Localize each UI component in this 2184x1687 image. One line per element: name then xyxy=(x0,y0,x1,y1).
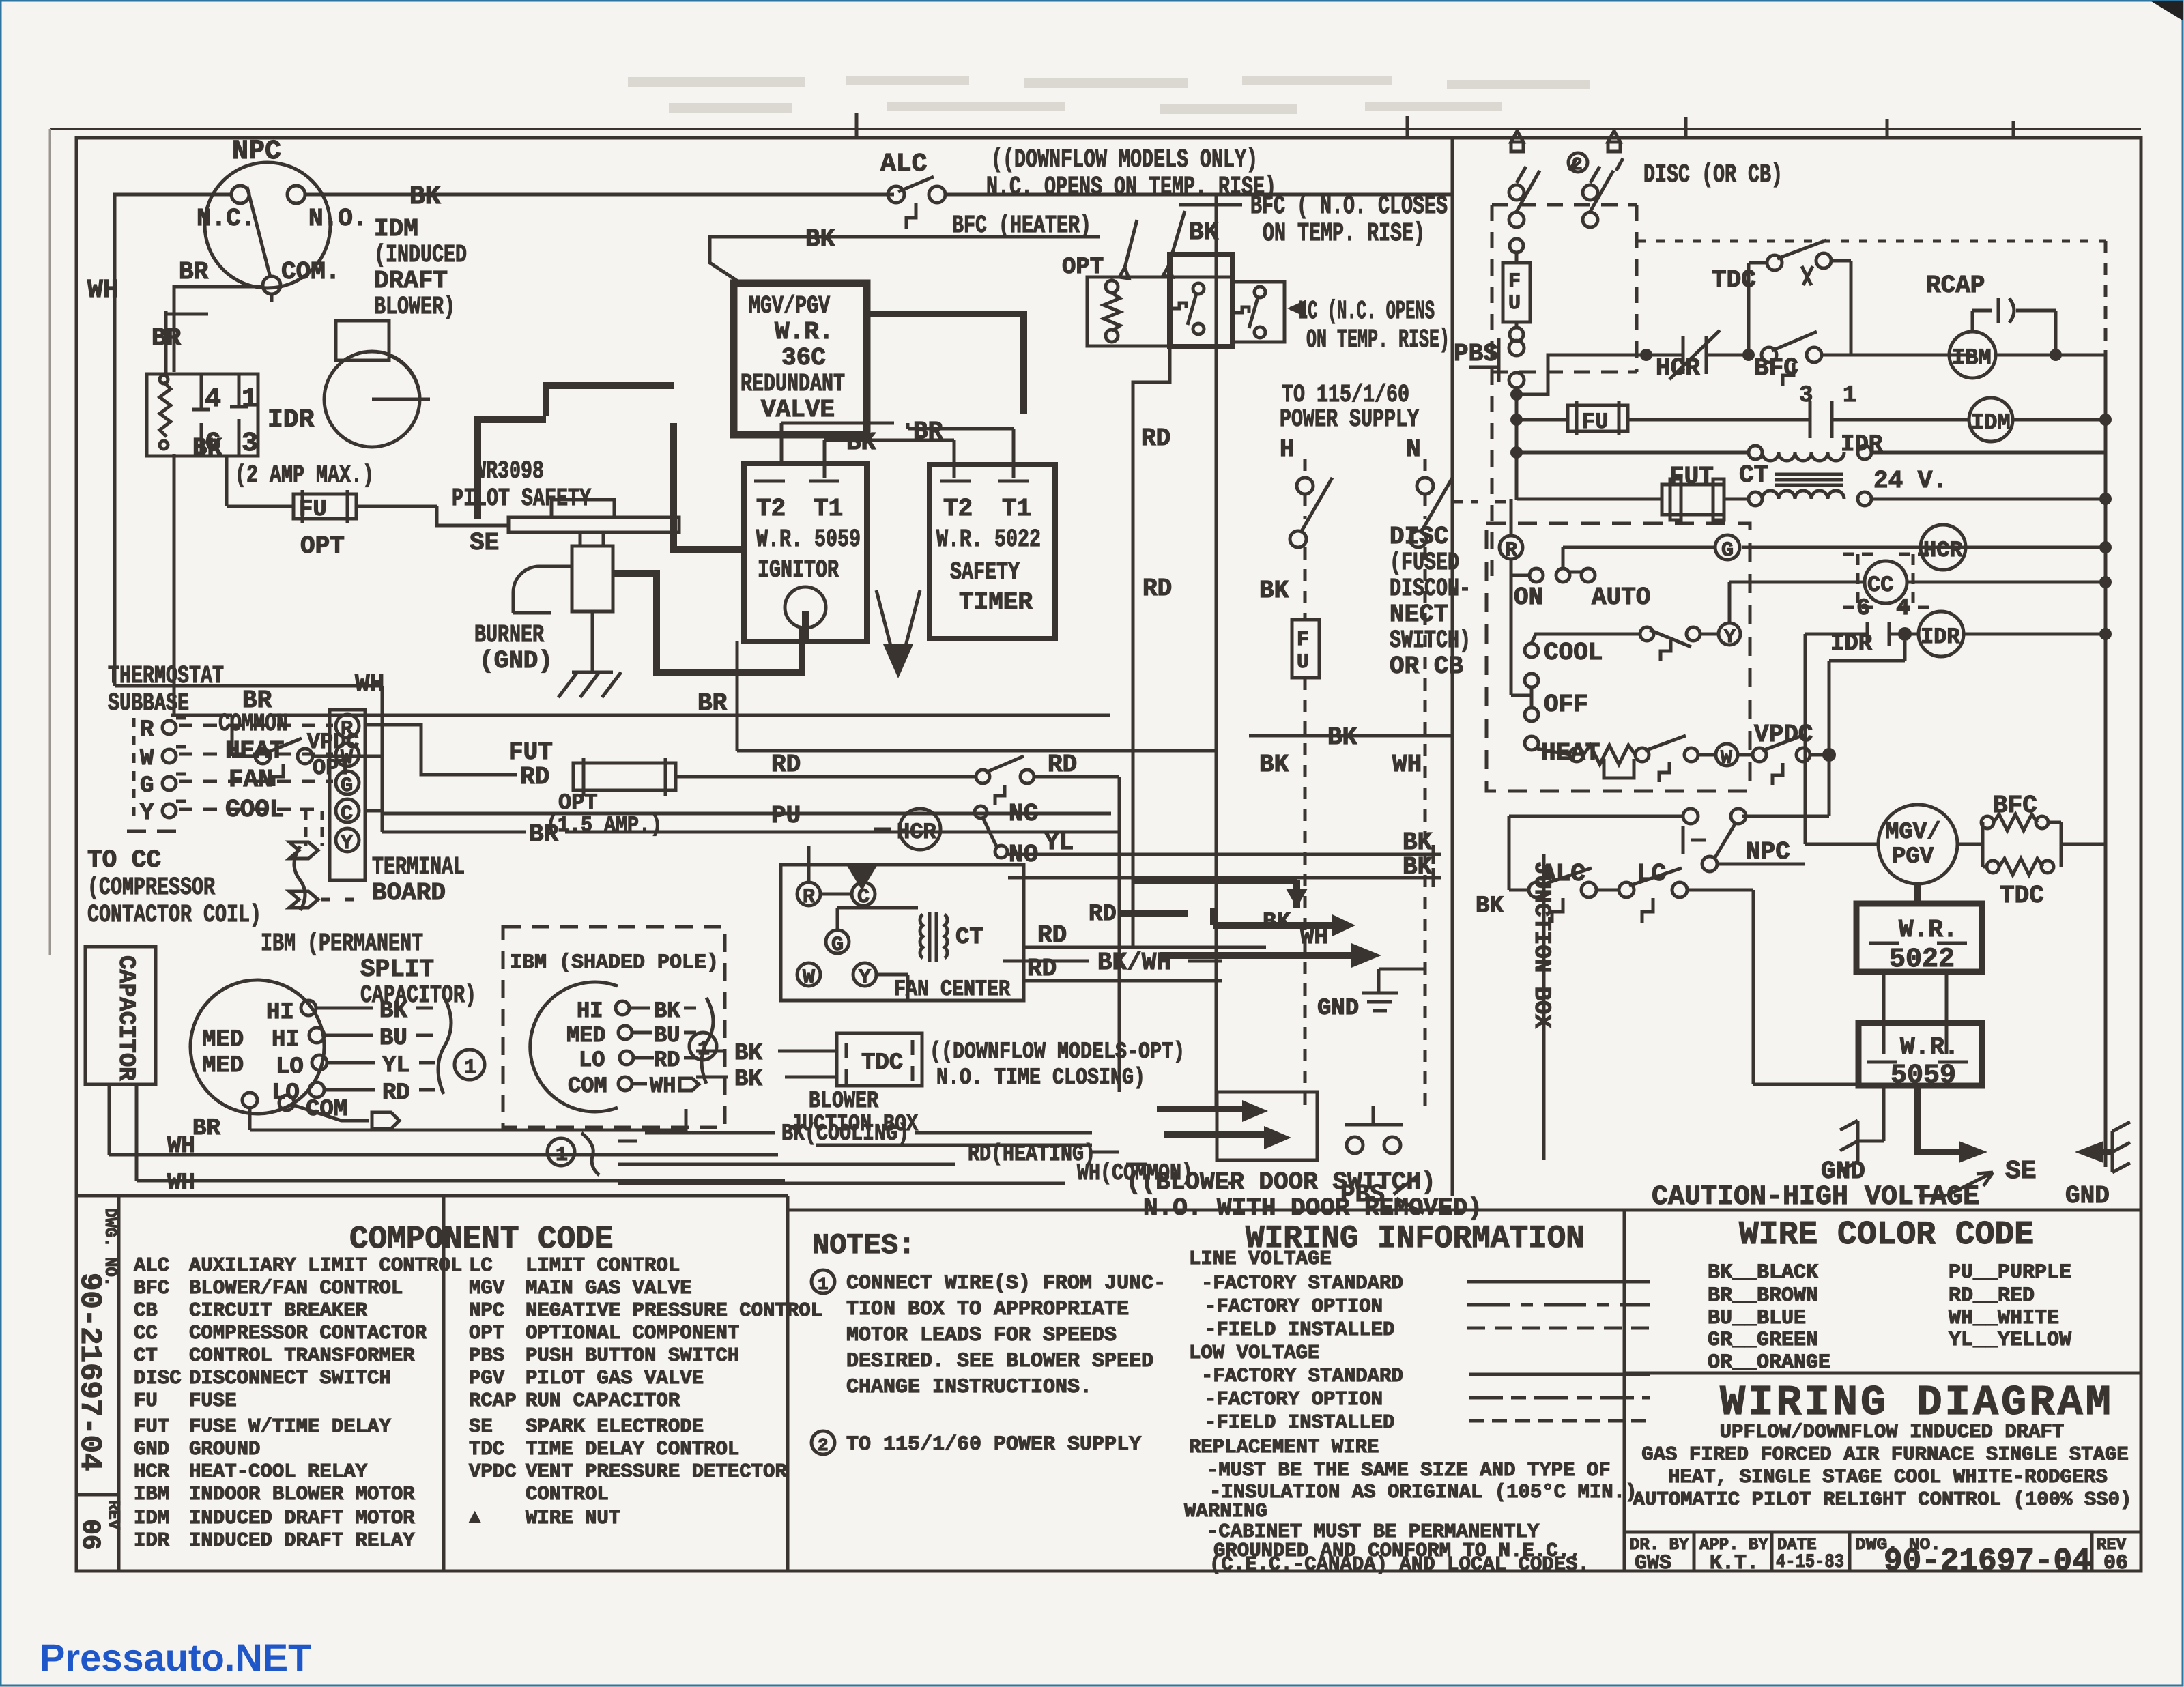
svg-text:BK: BK xyxy=(734,1041,762,1067)
svg-text:GROUND: GROUND xyxy=(189,1438,260,1460)
svg-text:LOW VOLTAGE: LOW VOLTAGE xyxy=(1189,1342,1319,1364)
transformer CT 24V xyxy=(1517,446,2112,506)
svg-text:W: W xyxy=(803,966,815,990)
svg-text:BR: BR xyxy=(913,418,943,446)
svg-text:INDUCED DRAFT RELAY: INDUCED DRAFT RELAY xyxy=(189,1529,415,1552)
svg-text:U: U xyxy=(1297,651,1309,674)
contact HCR N.C. xyxy=(1646,330,1749,379)
switch VPDC right xyxy=(1738,721,1836,785)
svg-text:RD: RD xyxy=(1141,424,1170,452)
svg-text:TO CC: TO CC xyxy=(87,846,161,874)
svg-text:BK: BK xyxy=(192,434,222,462)
svg-text:RD: RD xyxy=(1048,751,1077,779)
svg-text:RD: RD xyxy=(1037,921,1067,949)
svg-text:VALVE: VALVE xyxy=(761,396,835,424)
svg-text:F: F xyxy=(1508,270,1521,293)
svg-text:BR: BR xyxy=(179,258,209,286)
motor IDM blower symbol xyxy=(324,321,430,447)
svg-text:BK: BK xyxy=(734,1067,762,1093)
svg-text:RD: RD xyxy=(382,1080,410,1106)
svg-text:N.O. TIME CLOSING): N.O. TIME CLOSING) xyxy=(936,1065,1145,1091)
svg-text:K.T.: K.T. xyxy=(1710,1552,1759,1575)
svg-text:G: G xyxy=(1721,539,1734,562)
svg-text:(GND): (GND) xyxy=(479,647,553,675)
svg-text:YL: YL xyxy=(1044,828,1074,856)
heavy wire into valve left xyxy=(474,382,674,519)
svg-text:06: 06 xyxy=(75,1519,104,1551)
svg-text:OPT: OPT xyxy=(469,1322,504,1344)
svg-text:ALC: ALC xyxy=(134,1254,169,1277)
svg-text:Y: Y xyxy=(859,966,871,990)
scan corner artifact top-right xyxy=(2151,1,2183,20)
svg-text:CC: CC xyxy=(1867,573,1893,598)
motor IBM shaded pole dashed box xyxy=(503,927,725,1127)
svg-text:Y: Y xyxy=(140,801,154,826)
svg-text:NEGATIVE PRESSURE CONTROL: NEGATIVE PRESSURE CONTROL xyxy=(526,1299,822,1322)
svg-text:CONTROL TRANSFORMER: CONTROL TRANSFORMER xyxy=(189,1344,415,1367)
relay IDR xyxy=(147,374,315,459)
svg-text:JUCTION BOX: JUCTION BOX xyxy=(790,1112,918,1138)
svg-text:T1: T1 xyxy=(1002,495,1031,523)
svg-text:WH: WH xyxy=(167,1134,195,1159)
line samples xyxy=(1467,1280,1650,1284)
svg-text:-FACTORY STANDARD: -FACTORY STANDARD xyxy=(1201,1365,1403,1387)
svg-text:CHANGE INSTRUCTIONS.: CHANGE INSTRUCTIONS. xyxy=(846,1376,1092,1399)
svg-text:CONTACTOR COIL): CONTACTOR COIL) xyxy=(87,901,261,929)
svg-text:BK: BK xyxy=(1259,751,1289,779)
svg-text:SPARK ELECTRODE: SPARK ELECTRODE xyxy=(526,1415,704,1438)
svg-text:N.O.: N.O. xyxy=(308,205,367,233)
svg-text:IGNITOR: IGNITOR xyxy=(758,556,839,584)
fuse FU in disconnect xyxy=(1510,239,1523,253)
svg-text:BFC ( N.O. CLOSES: BFC ( N.O. CLOSES xyxy=(1250,192,1448,221)
svg-text:NC: NC xyxy=(1009,800,1038,828)
svg-text:DISC: DISC xyxy=(134,1367,182,1389)
svg-text:RCAP: RCAP xyxy=(469,1389,517,1412)
wires BK cooling / RD heating / WH common xyxy=(547,1121,1235,1187)
svg-text:TDC: TDC xyxy=(1712,266,1756,294)
svg-text:COM.: COM. xyxy=(281,258,340,286)
svg-text:MGV/PGV: MGV/PGV xyxy=(749,292,830,320)
svg-text:NOTES:: NOTES: xyxy=(812,1229,915,1262)
svg-text:G: G xyxy=(831,934,844,957)
svg-text:REV: REV xyxy=(104,1500,122,1530)
svg-text:WIRING DIAGRAM: WIRING DIAGRAM xyxy=(1720,1379,2114,1427)
svg-text:W: W xyxy=(1721,748,1732,769)
svg-text:WIRE NUT: WIRE NUT xyxy=(526,1507,620,1529)
svg-text:TERMINAL: TERMINAL xyxy=(372,853,465,881)
svg-text:N.C. OPENS ON TEMP. RISE): N.C. OPENS ON TEMP. RISE) xyxy=(986,173,1276,202)
svg-text:HCR: HCR xyxy=(134,1460,170,1483)
svg-text:R: R xyxy=(1505,539,1517,562)
svg-text:IDM: IDM xyxy=(1971,410,2011,435)
svg-text:YL: YL xyxy=(382,1053,410,1079)
switches ALC LC bottom right xyxy=(1509,816,1858,1084)
svg-text:FUT: FUT xyxy=(1669,463,1714,491)
svg-text:IDR: IDR xyxy=(134,1529,170,1552)
svg-text:5022: 5022 xyxy=(1889,945,1955,975)
svg-text:BK: BK xyxy=(1403,853,1433,881)
svg-text:DRAFT: DRAFT xyxy=(374,267,448,295)
drawing outer frame top line xyxy=(50,128,2141,130)
svg-text:INDOOR BLOWER MOTOR: INDOOR BLOWER MOTOR xyxy=(189,1483,415,1505)
svg-text:BK: BK xyxy=(654,998,680,1024)
svg-text:RD: RD xyxy=(1089,902,1117,927)
svg-text:R: R xyxy=(341,718,353,741)
svg-text:Y: Y xyxy=(341,832,353,855)
svg-text:NECT: NECT xyxy=(1390,601,1448,629)
valve MGV/PGV right xyxy=(1805,634,1957,884)
disconnect dashed box xyxy=(1492,131,1637,587)
svg-text:G: G xyxy=(341,775,353,798)
svg-text:4-15-83: 4-15-83 xyxy=(1776,1552,1844,1573)
svg-text:C: C xyxy=(341,803,353,826)
svg-text:BK: BK xyxy=(846,429,876,457)
svg-text:COM: COM xyxy=(568,1073,607,1099)
svg-text:GR__GREEN: GR__GREEN xyxy=(1708,1329,1818,1352)
svg-text:TDC: TDC xyxy=(469,1438,504,1460)
svg-text:WH: WH xyxy=(1392,751,1422,779)
svg-text:90-21697-04: 90-21697-04 xyxy=(72,1273,106,1471)
svg-text:MED: MED xyxy=(202,1027,244,1053)
svg-text:T1: T1 xyxy=(814,495,843,523)
svg-text:GWS: GWS xyxy=(1635,1552,1671,1575)
svg-text:MED: MED xyxy=(566,1023,606,1048)
svg-text:-FIELD INSTALLED: -FIELD INSTALLED xyxy=(1205,1411,1394,1434)
svg-text:REPLACEMENT WIRE: REPLACEMENT WIRE xyxy=(1189,1436,1379,1458)
svg-text:PU__PURPLE: PU__PURPLE xyxy=(1949,1261,2071,1284)
heat branch resistor xyxy=(1537,749,1570,755)
grounds + SE caution xyxy=(1652,1086,2130,1213)
svg-text:HCR: HCR xyxy=(1923,538,1963,563)
svg-text:GND: GND xyxy=(1821,1157,1865,1185)
dashed line N xyxy=(1424,459,1427,519)
svg-text:NPC: NPC xyxy=(469,1299,504,1322)
arrow into C xyxy=(846,865,878,891)
svg-text:OPT: OPT xyxy=(1062,255,1104,280)
svg-text:BU__BLUE: BU__BLUE xyxy=(1708,1307,1806,1330)
svg-text:AUTOMATIC PILOT RELIGHT CONTRO: AUTOMATIC PILOT RELIGHT CONTROL (100% SS… xyxy=(1633,1488,2132,1511)
wire WH from NPC N.C. to left vertical xyxy=(87,194,231,686)
arrow big V into fan center xyxy=(876,590,920,678)
svg-text:WH: WH xyxy=(650,1073,676,1099)
svg-text:1: 1 xyxy=(242,384,258,415)
svg-text:RUN CAPACITOR: RUN CAPACITOR xyxy=(526,1389,680,1412)
svg-text:3: 3 xyxy=(1799,383,1813,409)
svg-text:TO 115/1/60 POWER SUPPLY: TO 115/1/60 POWER SUPPLY xyxy=(846,1433,1141,1456)
svg-text:BFC (HEATER): BFC (HEATER) xyxy=(952,212,1091,240)
wire BR above timer xyxy=(908,418,1014,478)
svg-text:NPC: NPC xyxy=(232,136,281,167)
svg-text:ON TEMP. RISE): ON TEMP. RISE) xyxy=(1306,326,1450,355)
svg-text:H: H xyxy=(1280,435,1295,463)
svg-text:BFC: BFC xyxy=(134,1277,169,1299)
svg-text:HEAT-COOL RELAY: HEAT-COOL RELAY xyxy=(189,1460,368,1483)
svg-text:ON TEMP. RISE): ON TEMP. RISE) xyxy=(1263,219,1425,248)
bottom title row xyxy=(1624,1532,2141,1571)
center divider vertical between main schematic and right ladder xyxy=(1451,138,1454,1196)
svg-text:PBS: PBS xyxy=(1454,340,1498,368)
svg-text:((DOWNFLOW MODELS-OPT): ((DOWNFLOW MODELS-OPT) xyxy=(930,1039,1185,1065)
svg-text:C: C xyxy=(857,886,870,909)
svg-text:(C.E.C.-CANADA) AND LOCAL CODE: (C.E.C.-CANADA) AND LOCAL CODES. xyxy=(1209,1553,1590,1576)
svg-text:N.O. WITH DOOR REMOVED): N.O. WITH DOOR REMOVED) xyxy=(1143,1194,1482,1222)
registration ticks on top border xyxy=(857,113,2013,138)
system switch COOL OFF HEAT xyxy=(1511,559,1532,695)
switch LC-1 xyxy=(1193,283,1204,294)
resistor OPT inside xyxy=(1106,280,1118,293)
svg-text:HCR: HCR xyxy=(897,820,936,845)
wire BK valve top to BFC xyxy=(710,225,1100,285)
svg-text:BFC: BFC xyxy=(1754,354,1798,382)
svg-text:RCAP: RCAP xyxy=(1926,272,1985,300)
svg-text:Y: Y xyxy=(1724,627,1736,648)
svg-text:WH: WH xyxy=(167,1170,195,1196)
right inner vertical rail xyxy=(2104,241,2108,355)
svg-text:BU: BU xyxy=(654,1023,680,1048)
svg-text:PU: PU xyxy=(771,802,801,830)
svg-text:TDC: TDC xyxy=(861,1050,903,1076)
heavy wire valve right to 5022 xyxy=(867,314,1024,414)
terminal board xyxy=(330,710,465,907)
thermostat dashed box right xyxy=(1486,499,1750,791)
wires BR WH WH lower xyxy=(109,1084,785,1196)
cool branch to Y xyxy=(1532,634,1641,644)
ignitor W.R. 5059 xyxy=(744,463,867,641)
switch NPC right xyxy=(1509,809,1805,871)
svg-text:LO: LO xyxy=(276,1054,304,1080)
resistor TDC right xyxy=(1983,844,2106,1167)
motor IBM xyxy=(1949,332,1996,378)
svg-text:FUSE: FUSE xyxy=(189,1389,237,1412)
contact IDR 6-4 and relay IDR coil xyxy=(1742,541,2112,816)
svg-text:HEAT, SINGLE STAGE COOL WHITE-: HEAT, SINGLE STAGE COOL WHITE-RODGERS xyxy=(1668,1466,2108,1488)
timer box W.R. 5022 right xyxy=(1856,884,1982,975)
svg-text:G: G xyxy=(140,773,154,799)
svg-text:DESIRED. SEE BLOWER SPEED: DESIRED. SEE BLOWER SPEED xyxy=(846,1350,1153,1373)
svg-text:WH: WH xyxy=(1300,925,1328,951)
svg-text:-FACTORY OPTION: -FACTORY OPTION xyxy=(1205,1295,1383,1318)
switch LC-2 xyxy=(1254,287,1265,298)
svg-text:PGV: PGV xyxy=(1892,844,1934,870)
svg-text:OFF: OFF xyxy=(1544,691,1588,719)
relay HCR xyxy=(874,800,1441,887)
svg-text:POWER SUPPLY: POWER SUPPLY xyxy=(1280,405,1419,433)
svg-text:UPFLOW/DOWNFLOW INDUCED DRAFT: UPFLOW/DOWNFLOW INDUCED DRAFT xyxy=(1720,1421,2065,1443)
svg-text:OPTIONAL COMPONENT: OPTIONAL COMPONENT xyxy=(526,1322,739,1344)
svg-text:CT: CT xyxy=(1739,461,1768,489)
svg-text:FU: FU xyxy=(134,1389,158,1412)
heavy wire pilot to ignitor loop xyxy=(613,423,802,672)
svg-text:W.R.: W.R. xyxy=(1899,916,1957,944)
svg-text:W.R.: W.R. xyxy=(775,318,833,346)
svg-text:LC: LC xyxy=(469,1254,493,1277)
svg-text:BR: BR xyxy=(192,1116,220,1142)
svg-text:COOL: COOL xyxy=(1544,639,1603,667)
svg-text:HEAT: HEAT xyxy=(225,737,284,765)
svg-text:RD: RD xyxy=(1143,575,1172,603)
svg-text:BLOWER/FAN CONTROL: BLOWER/FAN CONTROL xyxy=(189,1277,403,1299)
svg-text:SAFETY: SAFETY xyxy=(950,558,1020,586)
svg-text:(FUSED: (FUSED xyxy=(1390,549,1459,577)
svg-text:PBS: PBS xyxy=(469,1344,504,1367)
svg-text:24 V.: 24 V. xyxy=(1873,467,1947,495)
svg-text:W.R. 5059: W.R. 5059 xyxy=(756,525,861,553)
svg-text:OR__ORANGE: OR__ORANGE xyxy=(1708,1351,1830,1374)
blower door switch box with arrows xyxy=(1126,1092,1482,1222)
svg-text:-FIELD INSTALLED: -FIELD INSTALLED xyxy=(1205,1318,1394,1341)
wires fan center to right rows xyxy=(876,921,1266,1000)
svg-text:OPT: OPT xyxy=(300,532,345,560)
svg-text:5059: 5059 xyxy=(1891,1061,1956,1091)
NPC switch NPC xyxy=(197,136,367,294)
svg-text:PUSH BUTTON SWITCH: PUSH BUTTON SWITCH xyxy=(526,1344,739,1367)
dwg number strip xyxy=(72,1196,122,1571)
svg-text:BK: BK xyxy=(1259,577,1289,605)
svg-text:GND: GND xyxy=(134,1438,169,1460)
svg-text:OPT: OPT xyxy=(558,790,598,816)
svg-text:WIRE COLOR CODE: WIRE COLOR CODE xyxy=(1739,1217,2034,1254)
switch ALC on BK bus xyxy=(880,145,1276,229)
wire BR vertical into IDR xyxy=(152,311,208,374)
valve MGV/PGV W.R. 36C redundant xyxy=(734,283,867,435)
svg-text:THERMOSTAT: THERMOSTAT xyxy=(108,662,224,690)
wire from LC box bottom down-left xyxy=(1133,347,1170,947)
motor IBM permanent split capacitor xyxy=(190,929,485,1129)
svg-text:HI: HI xyxy=(577,998,603,1024)
svg-text:BK: BK xyxy=(379,998,407,1024)
svg-text:MGV/: MGV/ xyxy=(1885,820,1941,846)
safety timer W.R. 5022 xyxy=(930,465,1055,639)
ground GND at junction box xyxy=(1317,969,1425,1022)
svg-text:2: 2 xyxy=(1572,154,1583,175)
svg-text:AUXILIARY LIMIT CONTROL: AUXILIARY LIMIT CONTROL xyxy=(189,1254,462,1277)
svg-text:BLOWER: BLOWER xyxy=(809,1088,878,1114)
svg-text:LC (N.C. OPENS: LC (N.C. OPENS xyxy=(1298,297,1435,326)
svg-text:DISC (OR CB): DISC (OR CB) xyxy=(1643,160,1783,190)
svg-text:W: W xyxy=(140,746,154,772)
svg-text:LO: LO xyxy=(272,1080,300,1106)
fuse FUT w/time delay xyxy=(1517,463,1749,520)
svg-text:GAS FIRED FORCED AIR FURNACE S: GAS FIRED FORCED AIR FURNACE SINGLE STAG… xyxy=(1641,1443,2129,1466)
right panel top border xyxy=(1624,1209,2141,1212)
svg-text:-MUST BE THE SAME SIZE AND TYP: -MUST BE THE SAME SIZE AND TYPE OF xyxy=(1207,1459,1611,1482)
svg-text:CAPACITOR: CAPACITOR xyxy=(113,955,139,1081)
svg-text:BK__BLACK: BK__BLACK xyxy=(1708,1261,1818,1284)
svg-text:BLOWER): BLOWER) xyxy=(374,293,455,321)
svg-text:RD: RD xyxy=(1027,955,1057,983)
svg-text:RD__RED: RD__RED xyxy=(1949,1284,2035,1308)
svg-text:FUT: FUT xyxy=(508,738,553,766)
notes panel xyxy=(811,1229,1166,1456)
wire BR row mid xyxy=(737,641,1452,751)
svg-text:SPLIT: SPLIT xyxy=(360,955,434,983)
switch BFC xyxy=(1762,347,1777,362)
terminal R xyxy=(1499,536,1523,559)
svg-text:SWITCH): SWITCH) xyxy=(1390,626,1471,654)
svg-text:COMPONENT CODE: COMPONENT CODE xyxy=(349,1222,613,1257)
svg-text:W: W xyxy=(341,747,353,770)
svg-text:(INDUCED: (INDUCED xyxy=(374,241,467,269)
svg-text:LIMIT CONTROL: LIMIT CONTROL xyxy=(526,1254,680,1277)
svg-text:BK: BK xyxy=(1189,218,1219,246)
svg-text:IBM (PERMANENT: IBM (PERMANENT xyxy=(261,929,423,957)
svg-text:COMPRESSOR CONTACTOR: COMPRESSOR CONTACTOR xyxy=(189,1322,427,1344)
svg-text:((DOWNFLOW MODELS ONLY): ((DOWNFLOW MODELS ONLY) xyxy=(991,145,1258,175)
svg-text:1: 1 xyxy=(818,1274,829,1295)
svg-text:PILOT GAS VALVE: PILOT GAS VALVE xyxy=(526,1367,704,1389)
svg-text:IBM (SHADED POLE): IBM (SHADED POLE) xyxy=(510,951,719,975)
fan switch ON / AUTO xyxy=(1511,559,1529,575)
svg-text:1: 1 xyxy=(464,1056,476,1080)
wire BK from IDR area to blower xyxy=(192,434,227,506)
svg-text:TDC: TDC xyxy=(2000,882,2044,910)
table band top border middle xyxy=(788,1209,1624,1212)
svg-text:FUT: FUT xyxy=(134,1415,169,1438)
switch on RD row xyxy=(976,770,990,783)
burner ground GND xyxy=(474,611,621,697)
svg-text:CONTROL: CONTROL xyxy=(526,1483,609,1505)
svg-text:VENT PRESSURE DETECTOR: VENT PRESSURE DETECTOR xyxy=(526,1460,787,1483)
svg-text:IDM: IDM xyxy=(374,215,418,243)
junction box arrows cluster xyxy=(1089,880,1381,968)
svg-text:TO 115/1/60: TO 115/1/60 xyxy=(1282,381,1409,409)
svg-text:CONNECT WIRE(S) FROM JUNC-: CONNECT WIRE(S) FROM JUNC- xyxy=(846,1272,1166,1295)
resistor BFC right xyxy=(1957,792,2061,867)
svg-text:90-21697-04: 90-21697-04 xyxy=(1884,1544,2091,1579)
svg-text:TIMER: TIMER xyxy=(959,588,1033,616)
svg-text:AUTO: AUTO xyxy=(1592,583,1650,611)
svg-text:GND: GND xyxy=(2065,1182,2110,1210)
svg-text:LO: LO xyxy=(579,1048,605,1073)
svg-text:PGV: PGV xyxy=(469,1367,505,1389)
svg-text:06: 06 xyxy=(2103,1552,2128,1575)
svg-text:1: 1 xyxy=(1843,383,1856,409)
svg-text:(COMPRESSOR: (COMPRESSOR xyxy=(87,874,215,902)
scan smudge band xyxy=(628,81,1590,109)
svg-text:T2: T2 xyxy=(756,495,786,523)
svg-text:W.R.: W.R. xyxy=(1900,1033,1959,1061)
svg-text:TIME DELAY CONTROL: TIME DELAY CONTROL xyxy=(526,1438,739,1460)
switch TDC parallel xyxy=(1749,263,1768,349)
svg-text:CB: CB xyxy=(134,1299,158,1322)
relay CC compressor contactor dashed xyxy=(1729,525,2112,623)
component code panel xyxy=(349,1196,788,1571)
svg-text:RD: RD xyxy=(771,751,801,779)
svg-text:HI: HI xyxy=(272,1027,300,1053)
pushbutton PBS bottom xyxy=(1340,1106,1424,1213)
limit control enclosure xyxy=(1062,255,1284,347)
svg-text:WH: WH xyxy=(87,276,119,305)
label BFC (HEATER) xyxy=(952,211,1185,278)
svg-text:▲: ▲ xyxy=(469,1507,481,1529)
row: FU, IDR 3-1 contact, IDM xyxy=(1517,383,2112,458)
table band top border left xyxy=(76,1194,788,1198)
svg-text:-INSULATION AS ORIGINAL (105°C: -INSULATION AS ORIGINAL (105°C MIN.) xyxy=(1209,1481,1637,1503)
wire WH vertical xyxy=(115,670,384,756)
svg-text:BR__BROWN: BR__BROWN xyxy=(1708,1284,1818,1308)
svg-text:4: 4 xyxy=(205,384,221,415)
svg-text:FAN: FAN xyxy=(229,766,273,794)
svg-text:Pressauto.NET: Pressauto.NET xyxy=(40,1636,311,1679)
svg-text:IDR: IDR xyxy=(1921,624,1960,650)
svg-text:DISCONNECT SWITCH: DISCONNECT SWITCH xyxy=(189,1367,391,1389)
thermostat subbase labels xyxy=(108,662,224,831)
svg-text:RD(HEATING): RD(HEATING) xyxy=(968,1142,1095,1168)
svg-text:3: 3 xyxy=(242,429,258,459)
svg-text:COMMON: COMMON xyxy=(218,710,288,738)
wire color code panel xyxy=(1624,1217,2141,1374)
